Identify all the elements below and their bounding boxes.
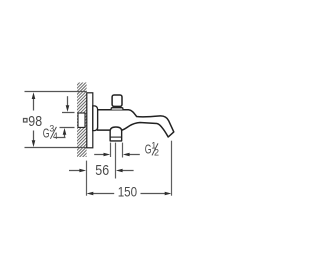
G1/2 dim right arrow xyxy=(128,154,140,156)
extension line top (98 dim, at plate top level) xyxy=(25,91,87,93)
diverter knob base xyxy=(111,108,123,110)
collar between plate and body xyxy=(93,106,98,131)
label G1/2 xyxy=(145,141,159,158)
faucet body with spout xyxy=(97,110,173,137)
G1/2 outlet extension lines xyxy=(110,143,112,157)
supply pipe stub in wall xyxy=(78,113,85,127)
escutcheon plate xyxy=(87,93,93,148)
svg-text:56: 56 xyxy=(95,163,109,179)
shower outlet dome below body xyxy=(110,127,122,141)
label square (square-plate symbol) xyxy=(24,119,28,123)
98 dim arrowhead up xyxy=(32,92,36,99)
label G3/4 xyxy=(43,124,58,141)
150 dim line with outward arrows xyxy=(92,193,114,195)
150 dim: right extension (spout tip) xyxy=(171,141,173,196)
G3/4 leader with up arrow xyxy=(54,137,65,139)
svg-text:98: 98 xyxy=(28,114,42,130)
outlet centerline xyxy=(115,143,117,179)
diverter knob xyxy=(112,95,122,106)
svg-text:150: 150 xyxy=(118,183,138,199)
wall (hatched section) xyxy=(70,62,94,179)
aerator joint line on outlet xyxy=(110,136,121,138)
pipe dim tick bottom xyxy=(60,127,75,129)
56 dim right arrow xyxy=(121,170,133,172)
56 dim arrows xyxy=(69,170,81,172)
pipe dim tick top xyxy=(62,112,75,114)
G1/2 dim arrows xyxy=(94,154,105,156)
56 dim: left extension (wall face) xyxy=(86,161,88,196)
pipe dim down arrow xyxy=(67,96,69,106)
knob waist xyxy=(113,106,120,109)
98 dim arrowhead down xyxy=(32,140,36,147)
dimension 98 vertical line with arrows xyxy=(33,98,35,143)
extension line bottom (98 dim, at plate bottom level) xyxy=(25,147,87,149)
